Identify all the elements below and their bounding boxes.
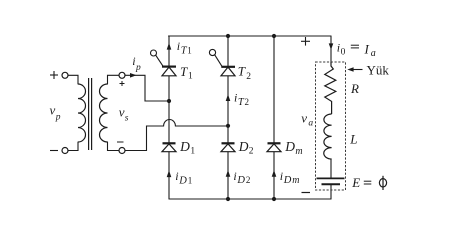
- svg-text:1: 1: [188, 72, 193, 82]
- terminal secondary +: [119, 72, 125, 78]
- node bottom bus Dm: [272, 197, 276, 201]
- wire secondary bottom terminal to T2 leg with crossover: [122, 126, 164, 151]
- svg-text:R: R: [350, 81, 359, 96]
- node bottom bus D2: [226, 197, 230, 201]
- wire hop over T1 leg: [164, 120, 176, 126]
- svg-text:1: 1: [190, 146, 195, 156]
- diode Dm (freewheeling): [267, 143, 281, 151]
- wire primary bottom terminal to winding: [65, 142, 78, 151]
- wire bottom bus: [169, 198, 331, 200]
- svg-text:1: 1: [187, 46, 192, 56]
- node secondary-top to T1/D1 junction: [167, 99, 171, 103]
- svg-text:2: 2: [246, 175, 251, 185]
- svg-text:D: D: [284, 139, 295, 154]
- transformer secondary winding: [100, 84, 108, 142]
- plus sign output: [301, 37, 310, 46]
- gate T1: [156, 55, 163, 66]
- plus sign primary: [50, 71, 58, 79]
- diode D2: [221, 143, 235, 151]
- svg-text:a: a: [371, 48, 376, 59]
- svg-text:D: D: [178, 176, 187, 187]
- node secondary-bottom to T2/D2 junction: [226, 124, 230, 128]
- svg-text:2: 2: [249, 146, 254, 156]
- diode D1: [162, 143, 176, 151]
- gate T2: [215, 55, 222, 67]
- phi symbol: [379, 176, 386, 190]
- wire Dm branch: [273, 36, 275, 199]
- thyristor T1: [151, 50, 177, 76]
- thyristor T2: [209, 49, 235, 75]
- arrow i_Dm: [272, 170, 277, 177]
- wire battery to bottom bus: [330, 185, 332, 199]
- svg-text:0: 0: [341, 48, 346, 58]
- svg-text:1: 1: [188, 176, 193, 186]
- svg-text:v: v: [50, 103, 56, 118]
- minus sign primary: [50, 150, 58, 152]
- svg-text:I: I: [364, 41, 370, 56]
- svg-text:p: p: [135, 63, 141, 73]
- arrow i_D1: [167, 170, 172, 177]
- node top bus T2: [226, 34, 230, 38]
- arrow i_T2: [226, 94, 231, 101]
- svg-text:T: T: [238, 64, 246, 79]
- svg-text:p: p: [55, 113, 61, 123]
- arrow i_0 output current: [329, 43, 334, 49]
- svg-text:2: 2: [245, 97, 250, 107]
- svg-text:i: i: [175, 169, 178, 183]
- wire secondary winding top to terminal: [108, 75, 123, 84]
- svg-text:a: a: [308, 119, 313, 129]
- svg-text:i: i: [234, 91, 237, 105]
- svg-text:m: m: [292, 175, 299, 186]
- arrow i_T1: [167, 43, 172, 50]
- load box: [316, 62, 346, 190]
- resistor R: [325, 62, 336, 114]
- svg-text:m: m: [295, 146, 302, 157]
- wire T2/D2 branch: [227, 36, 229, 199]
- svg-text:D: D: [238, 139, 249, 154]
- wire hop to T2 junction: [175, 125, 228, 127]
- arrow i_D2: [226, 170, 231, 177]
- minus sign secondary: [117, 141, 124, 143]
- svg-text:v: v: [301, 110, 307, 125]
- battery E plate long: [317, 177, 345, 179]
- minus sign output: [302, 192, 311, 194]
- svg-text:E: E: [351, 175, 360, 190]
- wire secondary top terminal to T1 leg (i_p path): [122, 75, 169, 101]
- wire load drop from top bus: [330, 36, 332, 62]
- wire top bus: [169, 35, 332, 37]
- svg-text:s: s: [125, 113, 129, 123]
- svg-text:2: 2: [246, 72, 251, 82]
- arrow Yuk pointing to load: [347, 67, 362, 72]
- terminal primary -: [62, 148, 68, 154]
- inductor L: [324, 114, 332, 159]
- transformer primary winding: [78, 84, 86, 142]
- arrow i_p: [130, 73, 137, 78]
- wire L to battery: [330, 159, 332, 178]
- wire T1/D1 branch: [168, 36, 170, 199]
- svg-text:D: D: [179, 139, 190, 154]
- node top bus Dm: [272, 34, 276, 38]
- plus sign secondary: [120, 81, 125, 86]
- terminal primary +: [62, 72, 68, 78]
- approx sign battery: [364, 181, 372, 184]
- svg-text:i: i: [280, 169, 283, 183]
- approx sign: [351, 45, 359, 48]
- svg-text:D: D: [236, 175, 245, 186]
- svg-text:i: i: [177, 39, 180, 53]
- terminal secondary -: [119, 148, 125, 154]
- wire primary top terminal to winding: [65, 75, 78, 84]
- wire secondary winding bottom to terminal: [108, 142, 123, 151]
- battery E plate short: [322, 183, 341, 185]
- svg-text:i: i: [233, 169, 236, 183]
- svg-text:Yük: Yük: [367, 62, 390, 77]
- svg-text:D: D: [283, 175, 292, 186]
- svg-text:L: L: [349, 131, 357, 146]
- transformer core: [89, 78, 92, 150]
- svg-text:T: T: [180, 64, 188, 79]
